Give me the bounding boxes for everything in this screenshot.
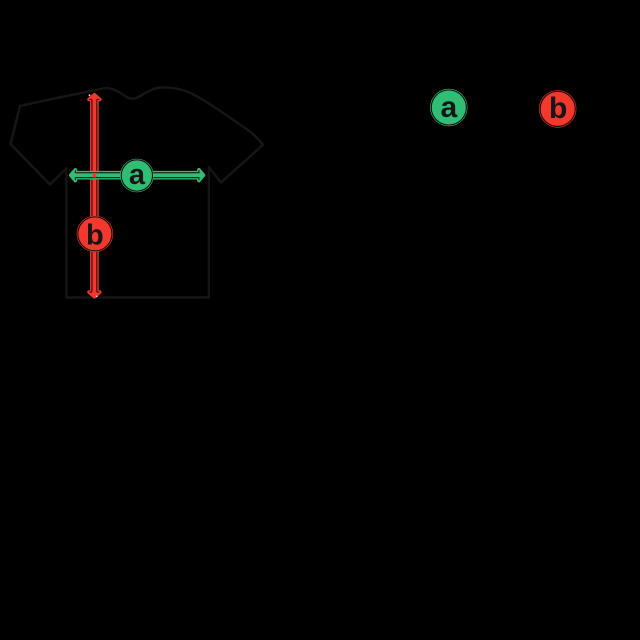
arrow b (vertical red, length measure): [89, 95, 100, 297]
right shoulder line: [160, 87, 263, 144]
collar curve: [104, 88, 160, 99]
marker circle b (diagram): [77, 216, 113, 252]
right underarm seam: [209, 167, 221, 183]
marker circle a (diagram): [120, 159, 153, 192]
white speck bottom: [96, 296, 98, 298]
left sleeve outer edge: [11, 106, 21, 144]
svg-text:b: b: [549, 92, 567, 125]
left underarm seam: [50, 168, 66, 184]
left sleeve bottom edge: [11, 144, 51, 185]
right sleeve bottom edge: [221, 145, 263, 183]
svg-text:b: b: [86, 219, 104, 251]
legend circle a: [430, 89, 467, 126]
legend circle b: [539, 91, 576, 128]
bottom hem: [66, 296, 208, 298]
body left side: [65, 168, 67, 297]
left shoulder line: [20, 88, 104, 106]
white speck top: [89, 94, 91, 96]
svg-text:a: a: [129, 159, 146, 191]
red core crossing patch: [92, 173, 96, 178]
arrow a (horizontal green, width measure): [71, 170, 204, 181]
svg-text:a: a: [440, 91, 457, 124]
body right side: [208, 167, 210, 298]
t-shirt outline: [11, 87, 264, 297]
